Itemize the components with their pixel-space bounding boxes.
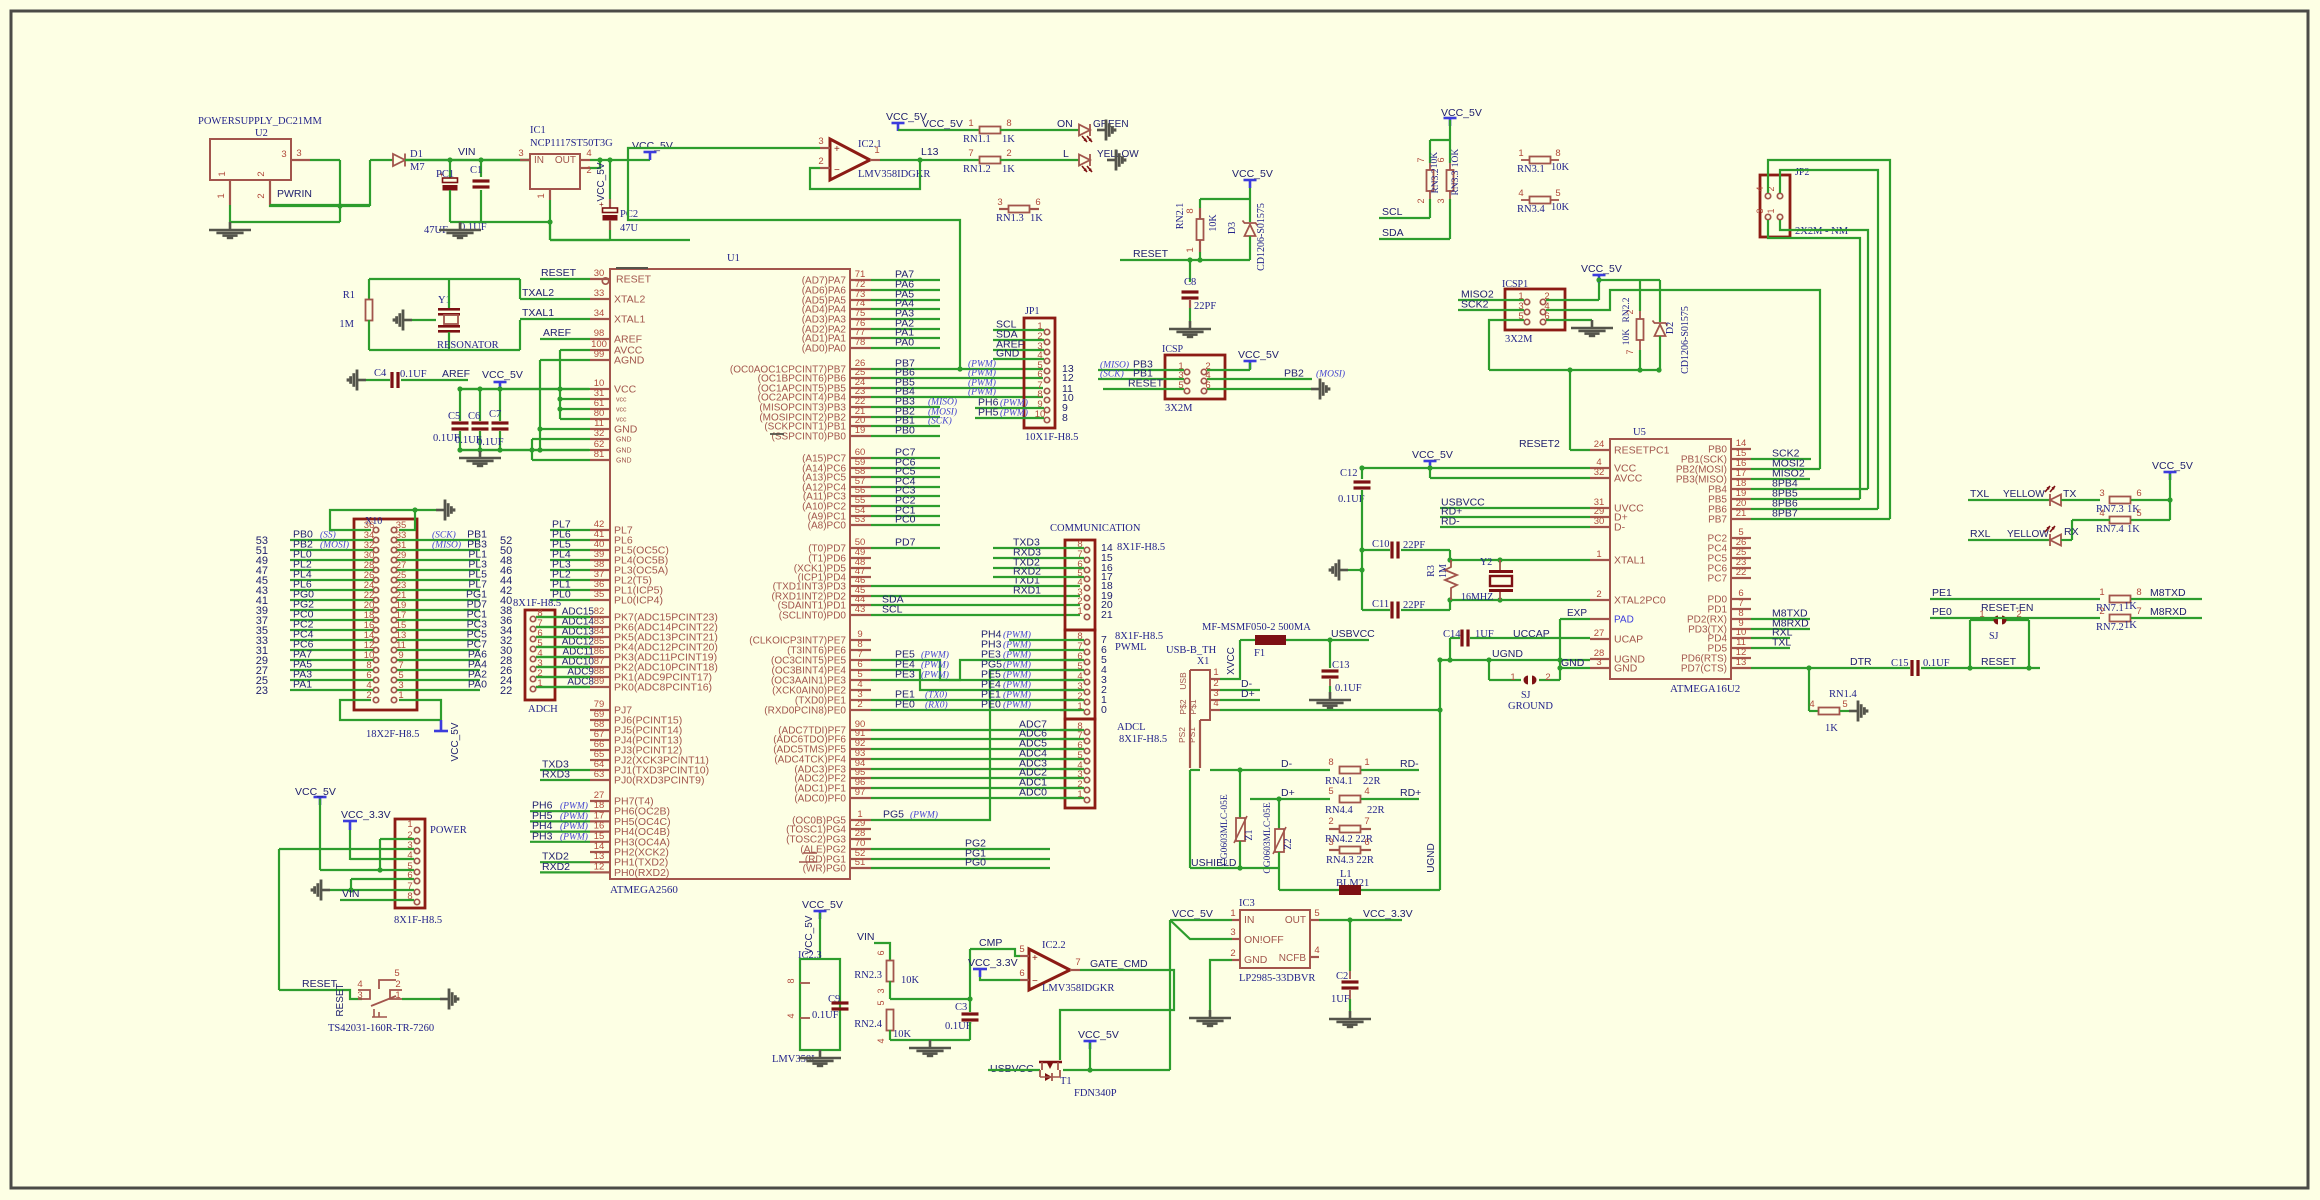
svg-text:vcc: vcc: [616, 417, 627, 424]
U1 pin 55 (A10)PC2: [850, 505, 871, 507]
svg-text:VCC_5V: VCC_5V: [802, 899, 843, 911]
connector ADCL 8X1F-H8.5: [1065, 719, 1095, 808]
PWML pin 8 PH4: [1084, 639, 1089, 644]
U2 pin 3: [291, 159, 310, 161]
U1 pin 16 PH4(OC4B): [590, 830, 610, 832]
op-amp IC2.2: [1029, 949, 1070, 990]
svg-text:1: 1: [536, 193, 547, 198]
X10 right wire PB1: [397, 539, 480, 541]
wire D- row: [1210, 769, 1330, 771]
ADCL pin 3: [1084, 777, 1089, 782]
wire diagonal to ON!OFF: [1170, 920, 1232, 939]
ADCL pin 4: [1084, 768, 1089, 773]
U5 pin 14 PB0: [1731, 448, 1751, 450]
wire PG2: [871, 848, 1050, 850]
svg-text:PD7: PD7: [895, 537, 916, 549]
svg-text:PA1: PA1: [293, 679, 312, 691]
svg-text:1: 1: [1364, 757, 1369, 768]
U5 pin 25 PC5: [1731, 557, 1751, 559]
svg-text:IN: IN: [1244, 914, 1255, 926]
IC3 pin 1: [1232, 919, 1240, 921]
PWML pin 5 PG5: [1084, 669, 1089, 674]
svg-text:1UF: 1UF: [1331, 994, 1350, 1005]
wire RN2.1 top rail: [1200, 198, 1250, 200]
svg-text:0.1UF: 0.1UF: [945, 1021, 972, 1032]
wire ICSP1 pin6 gnd: [1546, 319, 1592, 321]
wire PG0: [871, 867, 1050, 869]
svg-text:7: 7: [2136, 606, 2141, 617]
ground under caps: [459, 450, 501, 466]
U1 pin 67 PJ4(PCINT13): [590, 739, 610, 741]
U1 pin 56 (A11)PC3: [850, 495, 871, 497]
U1 pin 46 (TXD1INT3)PD3: [850, 585, 871, 587]
svg-text:SJ: SJ: [1521, 690, 1531, 701]
U1 pin 22 (MISOPCINT3)PB3: [850, 406, 871, 408]
svg-text:3: 3: [1755, 208, 1765, 213]
svg-text:ADCH: ADCH: [528, 704, 558, 715]
U1 pin 33 XTAL2: [590, 298, 610, 300]
svg-text:0.1UF: 0.1UF: [1335, 683, 1362, 694]
IC3 pin 5: [1310, 919, 1319, 921]
wire VCC_5V down to PC2: [609, 160, 611, 199]
wire POWER pin2 IOREF: [380, 838, 414, 840]
varistor Z2: [1278, 799, 1280, 829]
U1 pin 96 (ADC1)PF1: [850, 787, 871, 789]
svg-text:D-: D-: [1614, 522, 1626, 534]
svg-text:3: 3: [357, 990, 362, 1001]
svg-text:3: 3: [997, 197, 1002, 208]
svg-text:10K: 10K: [1551, 162, 1570, 173]
U1 pin 76 (AD2)PA2: [850, 328, 871, 330]
svg-text:LP2985-33DBVR: LP2985-33DBVR: [1239, 973, 1315, 984]
svg-text:8: 8: [2136, 587, 2141, 598]
wire EXP PAD net: [1559, 619, 1561, 680]
svg-text:VCC_5V: VCC_5V: [2152, 460, 2193, 472]
ADCH pin 5: [530, 646, 535, 651]
wire VCC to D3: [1249, 188, 1251, 222]
capacitor C7: [499, 389, 501, 421]
wire JP2.4 to 8PB7: [1768, 160, 1890, 519]
PWML pin 1 PE0: [1084, 709, 1089, 714]
JP1 pin 7: [1044, 388, 1049, 393]
svg-text:33: 33: [594, 288, 605, 299]
svg-text:VIN: VIN: [857, 931, 875, 943]
svg-text:RN1.3: RN1.3: [996, 213, 1024, 224]
POWER pin 3: [414, 848, 419, 853]
svg-text:1: 1: [395, 990, 400, 1001]
svg-text:0.1UF: 0.1UF: [400, 369, 427, 380]
wire PH3 to PWML7: [1009, 649, 1084, 651]
wire PE5 jog to PWML4: [871, 660, 1080, 680]
ICSP pins 5/6: [1184, 388, 1189, 393]
X10 left wire PL2: [290, 569, 373, 571]
LED RX yellow: [2050, 535, 2061, 546]
wire PWRIN: [270, 204, 370, 206]
svg-text:(PWM): (PWM): [1003, 650, 1031, 661]
U5 pin 28 UGND: [1590, 658, 1610, 660]
svg-text:98: 98: [594, 328, 605, 339]
supply VCC_5V at U5: [1424, 460, 1437, 463]
U1 pin 58 (A13)PC5: [850, 476, 871, 478]
svg-text:21: 21: [1736, 508, 1747, 519]
svg-text:PS1: PS1: [1187, 727, 1197, 743]
capacitor PC2 47U: [609, 199, 611, 208]
U1 pin 9 (CLKOICP3INT7)PE7: [850, 639, 871, 641]
svg-text:CD1206-S01575: CD1206-S01575: [1680, 306, 1691, 374]
U1 pin 42 PL7: [590, 529, 610, 531]
svg-text:PB0: PB0: [895, 425, 915, 437]
svg-text:1: 1: [1510, 672, 1515, 683]
svg-text:6: 6: [1436, 157, 1446, 162]
svg-text:PE0: PE0: [895, 699, 915, 711]
U1 pin 23 (OC2APCINT4)PB4: [850, 396, 871, 398]
svg-text:PS2: PS2: [1177, 727, 1187, 743]
U5 pin 10 PD4: [1731, 637, 1751, 639]
supply VCC_5V for IC2.3: [814, 910, 827, 913]
svg-text:TS42031-160R-TR-7260: TS42031-160R-TR-7260: [328, 1023, 434, 1034]
svg-text:2: 2: [1545, 672, 1550, 683]
svg-text:21: 21: [1101, 609, 1113, 621]
net RXD3 into PJ0: [540, 779, 590, 781]
svg-text:PG0: PG0: [965, 857, 986, 869]
svg-text:2: 2: [1416, 198, 1426, 203]
U5 pin 21 PB7: [1731, 518, 1751, 520]
svg-text:81: 81: [594, 449, 605, 460]
net TXD3 into PJ1: [540, 769, 590, 771]
wire POWER pin3 RESET long: [279, 848, 414, 850]
svg-text:U2: U2: [255, 128, 268, 139]
JP1 pin 6: [1044, 377, 1049, 382]
junction VIN-PC1: [447, 157, 452, 162]
U1 pin 74 (AD4)PA4: [850, 308, 871, 310]
svg-text:P$2: P$2: [1178, 699, 1188, 714]
svg-text:24: 24: [1594, 439, 1605, 450]
wire to L1: [1278, 868, 1280, 890]
svg-text:ADCL: ADCL: [1117, 722, 1146, 733]
U1 pin 65 PJ2(XCK3PCINT11): [590, 759, 610, 761]
svg-text:RESET: RESET: [616, 274, 652, 286]
supply VCC_5V for RN7: [2164, 471, 2177, 474]
wire D- stub: [1220, 689, 1260, 691]
supply VCC_5V above U1 vcc: [494, 381, 507, 384]
X10 right wire PC1: [397, 619, 480, 621]
X10 right wire PA0: [397, 689, 480, 691]
svg-text:32: 32: [594, 428, 605, 439]
POWER pin 4: [414, 858, 419, 863]
svg-text:(PWM): (PWM): [1003, 670, 1031, 681]
svg-text:PWML: PWML: [1115, 642, 1147, 653]
U1 pin 20 (SCKPCINT1)PB1: [850, 425, 871, 427]
U1 pin 27 PH7(T4): [590, 800, 610, 802]
capacitor C8 22PF: [1189, 260, 1191, 282]
ground arrow after yellow LED: [1107, 159, 1116, 162]
svg-text:FDN340P: FDN340P: [1074, 1088, 1117, 1099]
U1 pin 77 (AD1)PA1: [850, 337, 871, 339]
X10 right wire PL1: [397, 559, 480, 561]
U1 pin 91 (ADC6TDO)PF6: [850, 738, 871, 740]
U1 pin 73 (AD5)PA5: [850, 299, 871, 301]
svg-text:GND: GND: [1244, 954, 1268, 966]
LED green ON: [1079, 125, 1090, 136]
svg-text:1K: 1K: [2127, 524, 2140, 535]
wire IC2.1 output L13: [880, 159, 980, 161]
svg-text:78: 78: [855, 337, 866, 348]
svg-text:R1: R1: [343, 290, 355, 301]
wire AVCC row: [1429, 468, 1431, 478]
X10 pins 24/23: [373, 587, 378, 592]
wire XTAL1 row: [1449, 550, 1451, 560]
wire JP2.2 to 8PB6: [1780, 170, 1878, 509]
svg-text:C10: C10: [1372, 539, 1390, 550]
COMM pin 7: [1084, 557, 1089, 562]
svg-text:VCC_5V: VCC_5V: [1238, 349, 1279, 361]
svg-text:PE0: PE0: [981, 699, 1001, 711]
svg-text:2: 2: [818, 156, 823, 167]
resistor RN7.4 1K: [2110, 517, 2131, 524]
svg-text:8X1F-H8.5: 8X1F-H8.5: [1117, 542, 1165, 553]
svg-text:53: 53: [855, 514, 866, 525]
U1 pin 60 (A15)PC7: [850, 457, 871, 459]
wire SDA: [1379, 238, 1450, 240]
svg-text:6: 6: [2136, 488, 2141, 499]
svg-text:GND: GND: [616, 458, 632, 465]
svg-text:−: −: [834, 165, 840, 176]
capacitor C5: [459, 389, 461, 421]
resistor RN7.1 1K: [2110, 596, 2131, 603]
svg-text:1M: 1M: [1438, 564, 1449, 578]
X10 right wire PA4: [397, 669, 480, 671]
svg-text:2: 2: [2099, 606, 2104, 617]
svg-text:U5: U5: [1633, 427, 1646, 438]
svg-text:4: 4: [1364, 786, 1369, 797]
U1 pin 68 PJ5(PCINT14): [590, 729, 610, 731]
U1 pin 45 (RXD1INT2)PD2: [850, 595, 871, 597]
wire POWER pin8 VIN: [340, 899, 414, 901]
svg-text:0.1UF: 0.1UF: [812, 1010, 839, 1021]
svg-text:RN7.4: RN7.4: [2096, 524, 2124, 535]
U5 pin 11 PD5: [1731, 647, 1751, 649]
U5 pin 8 PD2(RX): [1731, 618, 1751, 620]
svg-text:4: 4: [1755, 186, 1765, 191]
supply VCC_5V above D3: [1244, 179, 1257, 182]
X10 right wire PA6: [397, 659, 480, 661]
svg-text:1K: 1K: [2124, 601, 2137, 612]
wire DTR from PD7: [1751, 667, 1910, 669]
U1 pin 4 (XCK0AIN0)PE2: [850, 689, 871, 691]
regulator IC3 LP2985-33DBVR: [1240, 910, 1310, 968]
U1 pin 49 (T1)PD6: [850, 557, 871, 559]
svg-text:3: 3: [2099, 488, 2104, 499]
svg-text:IC2.2: IC2.2: [1042, 940, 1066, 951]
svg-text:1K: 1K: [1002, 164, 1015, 175]
svg-text:P$1: P$1: [1188, 699, 1198, 714]
U1 pin 70 (ALE)PG2: [850, 848, 871, 850]
svg-text:PA0: PA0: [468, 679, 487, 691]
IC U1 ATMEGA2560 body: [610, 269, 850, 879]
svg-text:M8TXD: M8TXD: [2150, 587, 2186, 599]
svg-text:8X1F-H8.5: 8X1F-H8.5: [394, 915, 442, 926]
U5 pin 6 PD0: [1731, 598, 1751, 600]
svg-text:RD-: RD-: [1441, 516, 1460, 528]
svg-text:(PWM): (PWM): [560, 811, 588, 822]
JP1 pin 5: [1044, 368, 1049, 373]
svg-text:U1: U1: [727, 253, 740, 264]
svg-text:1: 1: [1213, 667, 1218, 678]
svg-text:6: 6: [1364, 837, 1369, 848]
supply VCC_5V above POWER: [314, 796, 327, 799]
svg-text:(PWM): (PWM): [1003, 630, 1031, 641]
svg-text:10X1F-H8.5: 10X1F-H8.5: [1025, 432, 1078, 443]
wire ICSP pin2 VCC: [1207, 369, 1250, 371]
svg-text:vcc: vcc: [616, 407, 627, 414]
gnd rail under caps: [460, 449, 589, 451]
svg-text:USB: USB: [1178, 672, 1188, 690]
svg-text:F1: F1: [1254, 648, 1265, 659]
X10 right wire PD7: [397, 609, 480, 611]
wire LED RX out: [2061, 539, 2072, 541]
U1 pin 66 PJ3(PCINT12): [590, 749, 610, 751]
wire SCL: [1379, 217, 1430, 219]
svg-text:5: 5: [2136, 508, 2141, 519]
svg-text:TXL: TXL: [1772, 637, 1791, 649]
svg-text:VCC_3.3V: VCC_3.3V: [341, 809, 391, 821]
svg-text:PE3: PE3: [895, 669, 915, 681]
svg-text:51: 51: [855, 857, 866, 868]
wire ICSP MISO PB3: [1098, 369, 1184, 371]
svg-text:89: 89: [594, 676, 605, 687]
svg-text:32: 32: [1594, 467, 1605, 478]
svg-text:5: 5: [1019, 944, 1024, 955]
svg-text:(MOSI): (MOSI): [1316, 369, 1345, 380]
svg-text:SCL: SCL: [882, 604, 903, 616]
svg-text:3X2M: 3X2M: [1505, 334, 1533, 345]
svg-text:6: 6: [876, 950, 886, 955]
wire SCL to COMM: [871, 614, 1080, 616]
X1 shell pins: [1189, 720, 1191, 768]
svg-text:10K: 10K: [1208, 214, 1219, 232]
svg-text:PH0(RXD2): PH0(RXD2): [614, 867, 669, 879]
svg-text:UGND: UGND: [1426, 843, 1437, 872]
supply VCC_5V for RN3 pullups: [1444, 117, 1457, 120]
capacitor C14 1UF: [1450, 637, 1460, 639]
svg-text:VCC_3.3V: VCC_3.3V: [968, 957, 1018, 969]
svg-text:19: 19: [855, 425, 866, 436]
X10 left wire PA7: [290, 659, 373, 661]
svg-text:5: 5: [876, 1000, 886, 1005]
wire PH4 to PWML8: [1009, 639, 1084, 641]
svg-text:4: 4: [1518, 188, 1523, 199]
U1 pin 25 (OC1BPCINT6)PB6: [850, 377, 871, 379]
X10 right wire PC5: [397, 639, 480, 641]
wire IC2.1 feedback: [810, 160, 920, 189]
X10 pins 2/1: [373, 697, 378, 702]
svg-text:PB2: PB2: [1284, 368, 1304, 380]
PWML pin 6 PE3: [1084, 659, 1089, 664]
capacitor C1 0.1UF: [480, 160, 482, 177]
X10 pins 18/17: [373, 617, 378, 622]
svg-text:4: 4: [1314, 945, 1319, 956]
wire PC2 gnd: [609, 230, 611, 240]
svg-text:C11: C11: [1372, 599, 1389, 610]
U1 pin 18 PH6(OC2B): [590, 810, 610, 812]
wire U2 gnd return: [230, 221, 340, 223]
X10 right wire PA2: [397, 679, 480, 681]
U1 pin 81 GND: [590, 459, 610, 461]
svg-text:M8RXD: M8RXD: [2150, 606, 2187, 618]
U1 pin 51 (WR)PG0: [850, 867, 871, 869]
svg-text:47U: 47U: [620, 223, 639, 234]
svg-text:D3: D3: [1227, 222, 1238, 234]
PWML pin 4 PE5: [1084, 679, 1089, 684]
connector X10 18X2F-H8.5: [354, 519, 417, 710]
U1 pin 32 GND: [590, 438, 610, 440]
ground arrow crystal: [1339, 569, 1348, 572]
wire RN7.4 to RX LED: [2072, 519, 2110, 521]
svg-text:RN7.2: RN7.2: [2096, 622, 2124, 633]
ground mid bottom: [909, 1040, 951, 1056]
svg-text:PH3: PH3: [532, 830, 553, 842]
U1 pin 54 (A9)PC1: [850, 515, 871, 517]
svg-text:2: 2: [256, 193, 267, 198]
wire PE0 to RN7.2: [1930, 617, 2100, 619]
supply VCC_5V at IC1: [644, 151, 657, 154]
PWML pin 3 PE4: [1084, 689, 1089, 694]
wire IC3 GND: [1210, 960, 1232, 1010]
svg-text:LMV358I: LMV358I: [772, 1054, 815, 1065]
wire USBVCC to UVCC: [1440, 507, 1590, 509]
svg-text:8PB7: 8PB7: [1772, 508, 1798, 520]
capacitor C6: [479, 389, 481, 421]
svg-text:OUT: OUT: [555, 155, 576, 166]
wire POWER pin7 gnd: [330, 889, 414, 891]
svg-text:1: 1: [1077, 606, 1082, 617]
svg-text:C15: C15: [1891, 658, 1909, 669]
IC1 pin 1 tab: [549, 189, 551, 200]
ground arrow after green LED: [1097, 129, 1106, 132]
U5 pin 23 PC6: [1731, 567, 1751, 569]
svg-text:1: 1: [216, 193, 227, 198]
svg-text:1K: 1K: [1002, 134, 1015, 145]
svg-text:RXL: RXL: [1970, 528, 1991, 540]
svg-text:30: 30: [1594, 516, 1605, 527]
svg-text:27: 27: [1594, 628, 1605, 639]
svg-text:(PWM): (PWM): [921, 670, 949, 681]
svg-text:ATMEGA16U2: ATMEGA16U2: [1670, 683, 1740, 695]
IC1 pin 4: [580, 159, 590, 161]
svg-text:VCC: VCC: [614, 384, 637, 396]
wire U2.3 to diode node: [310, 159, 340, 161]
supply VCC_5V at ICSP1: [1593, 274, 1606, 277]
U1 pin 1 (OC0B)PG5: [850, 819, 871, 821]
svg-text:NCP1117ST50T3G: NCP1117ST50T3G: [530, 138, 613, 149]
resistor RN1.3 1K spare: [999, 208, 1009, 210]
svg-text:6: 6: [1037, 369, 1042, 380]
svg-text:SJ: SJ: [1989, 631, 1999, 642]
U5 pin 32 AVCC: [1590, 477, 1610, 479]
rail VCC to RN2.2 D2: [1599, 279, 1660, 281]
svg-text:PC1: PC1: [436, 169, 454, 180]
U5 pin 16 PB2(MOSI): [1731, 468, 1751, 470]
ADCH pin 1: [530, 686, 535, 691]
X10 pins 14/13: [373, 637, 378, 642]
svg-text:RN4.4: RN4.4: [1325, 805, 1353, 816]
IC3 pin 3: [1232, 938, 1240, 940]
svg-text:(PWM): (PWM): [560, 831, 588, 842]
svg-text:ADC8: ADC8: [567, 677, 594, 688]
PWML pin 2 PE1: [1084, 699, 1089, 704]
ICSP pins 3/4: [1184, 378, 1189, 383]
wire IC1 out to VCC_5V: [590, 159, 650, 161]
